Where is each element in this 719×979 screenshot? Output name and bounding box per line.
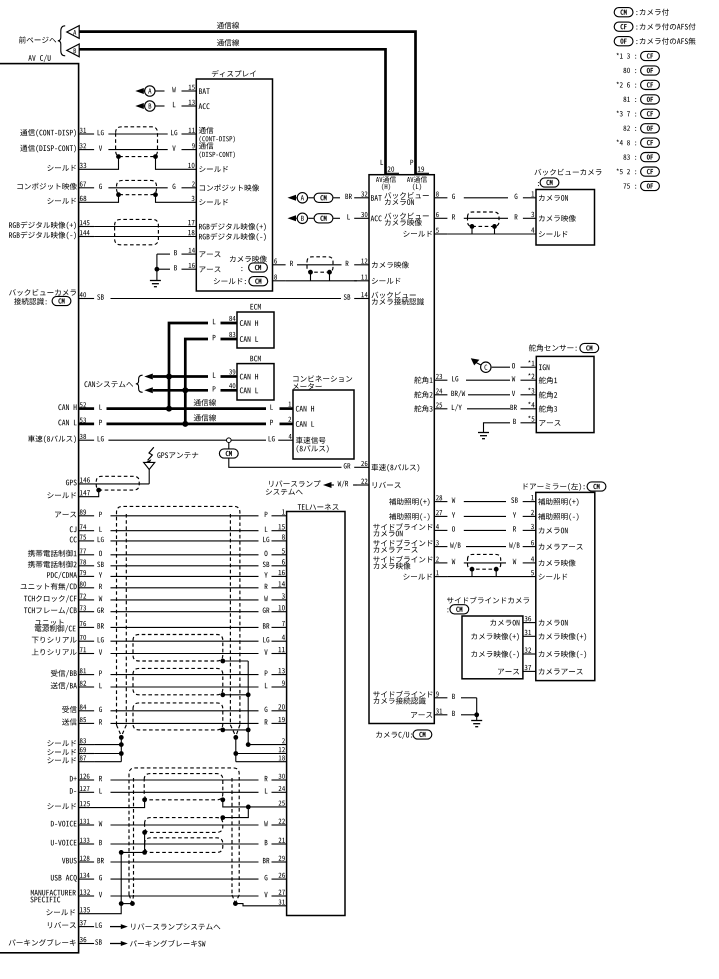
shield drain right to TEL pin 25: [220, 797, 286, 809]
shield around wire 67: [117, 180, 157, 194]
wire CAN L bus 53 to meter pin 2 (thick): [58, 414, 314, 427]
label カメラ映像:CM: [230, 255, 268, 272]
label AV通信(L): [407, 176, 427, 190]
shield drain to pins 68/3: [47, 192, 228, 205]
wire pin 6 R to camera pin 3 カメラ映像: [434, 212, 575, 222]
box ECM: [237, 304, 274, 348]
legend row 75:OF: [623, 181, 659, 190]
wire shield 87 to TEL pin 18: [47, 755, 286, 763]
shield drain pin5/pin4: [403, 224, 567, 237]
legend row *2 6:CF: [616, 80, 659, 89]
label ドアーミラー(左):CM: [524, 482, 606, 491]
wire 133 U-VOICE B to TEL 21: [51, 838, 287, 846]
label リバースランプシステムへ (reverse lamp): [266, 479, 401, 495]
connector AV C/U camera section box: [369, 175, 434, 724]
wire 24 BR/W to 舵角2 *3: [414, 388, 557, 399]
wire 67 G コンポジット映像: [17, 181, 259, 191]
wire 78 SB to TEL pin 6: [28, 559, 287, 568]
legend OF = カメラ付のAFS無: [614, 37, 695, 46]
wire 79 Y to TEL pin 16: [47, 570, 286, 579]
wire ground to アース *5: [478, 416, 561, 439]
wire 77 O to TEL pin 5: [28, 548, 287, 556]
shield around camera video R: [307, 257, 333, 272]
shield around camera R wire: [468, 212, 500, 226]
connector バックビューカメラ box: [536, 190, 595, 246]
wire 通信線 A to pin 19 (thick): [79, 32, 415, 175]
wire 81 P to TEL pin 13: [51, 668, 287, 677]
wire display pin 16 アース B: [157, 263, 221, 272]
wire shield 83 to TEL pin 2: [47, 738, 286, 747]
legend row *5 2:CF: [616, 167, 659, 176]
shield around U-VOICE: [145, 838, 223, 853]
wire 80 R to TEL pin 14: [21, 581, 287, 590]
box BCM: [237, 356, 274, 400]
wire 89 P to TEL pin 1: [55, 509, 286, 517]
wire 82 L to TEL pin 9: [51, 680, 287, 689]
inner shield 下り/上りシリアル: [133, 635, 223, 662]
legend row 82:OF: [623, 124, 659, 133]
wire shield 135: [46, 901, 134, 915]
wire 36 パーキングブレーキ arrow: [9, 937, 206, 947]
connector サイドブラインドカメラ box: [462, 616, 523, 679]
wire 3 W/B to door mirror pin 6 カメラアース: [373, 539, 582, 552]
shield around door mirror W wire: [468, 554, 501, 569]
label CANシステムへ: [84, 375, 142, 392]
wire 74 L to TEL pin 15: [70, 524, 287, 532]
label AV通信(H): [376, 176, 396, 190]
legend row 83:OF: [623, 153, 659, 162]
shield around RGB pair: [115, 219, 159, 244]
wire 車速 38 LG to meter pin 4: [28, 434, 329, 453]
wire 73 GR to TEL pin 10: [24, 605, 287, 614]
wire 146 GPS: [66, 477, 149, 485]
label 舵角センサー:CM: [529, 343, 599, 352]
wire 40 SB バックビューカメラ接続認識: [9, 289, 424, 306]
label 通信線 (second line): [217, 39, 239, 46]
shield drain verticals: [119, 735, 238, 762]
label ディスプレイ: [212, 70, 256, 77]
label バックビューカメラ :CM: [534, 169, 601, 187]
wire 134 USB ACQ G to TEL 26: [51, 873, 287, 882]
label P pin 19: [410, 160, 429, 174]
wire 131 D-VOICE W to TEL 22: [51, 819, 287, 827]
wire CAN H bus 52 to meter pin 1 (thick): [58, 399, 314, 412]
wire 31 LG 通信(CONT-DISP): [20, 127, 235, 143]
box コンビネーションメーター: [293, 375, 354, 459]
wire 31 B アース to ground: [411, 708, 482, 726]
connector ドアーミラー(左) box: [536, 492, 595, 680]
wire C to IGN *1: [471, 358, 550, 372]
wire 128 VBUS BR to TEL 29: [62, 856, 287, 864]
wire 2 W to door mirror pin 4 カメラ映像: [373, 556, 575, 570]
label L pin 20: [381, 160, 399, 174]
legend row 80:OF: [623, 66, 659, 75]
wire 70 LG to TEL pin 4: [32, 635, 287, 643]
legend row *4 8:CF: [616, 138, 659, 147]
wire 28 W to door mirror pin 1 補助照明(+): [389, 495, 579, 506]
shield drain to pin 8/11: [273, 270, 401, 284]
wire 25 L/Y to 舵角3 *4: [414, 402, 557, 413]
wire 37 リバース arrow: [48, 920, 220, 930]
wire 9 B サイドブラインドカメラ接続認識: [373, 691, 476, 715]
ground for display アース: [150, 254, 161, 287]
shield drain door mirror: [403, 567, 567, 580]
drain to W shield top: [220, 807, 248, 820]
wire side blind camera pin 36 カメラON: [490, 616, 567, 626]
shield drain pin 147: [47, 488, 101, 499]
wire 84 G to TEL pin 20: [62, 704, 286, 713]
wire 71 V to TEL pin 11: [32, 647, 287, 655]
inner shield 受信/送信 BB/BA: [133, 668, 223, 694]
triangle connector A: [67, 26, 79, 39]
wire 32 V 通信(DISP-CONT): [20, 142, 235, 158]
shield around D-VOICE: [145, 818, 223, 833]
shield drain to TEL 31: [233, 899, 287, 906]
wire BCM pin 40 CAN L (thick): [144, 383, 258, 393]
wire ACC 30 from connector B/CM: [288, 212, 429, 226]
wire display pin 15 BAT from connector A: [135, 85, 209, 96]
connector 舵角センサー box: [536, 356, 594, 432]
outer shield around TEL bundle: [117, 506, 240, 736]
legend row *3 7:CF: [616, 109, 659, 118]
shield drain to pins 33/10: [47, 154, 228, 172]
shield drains right to TEL pin 2: [220, 659, 250, 747]
antenna drop and triangle: [144, 462, 155, 484]
wire 76 BR to TEL pin 7: [35, 619, 287, 632]
wire pin 8 G to camera pin 1 カメラON: [434, 191, 568, 201]
outer shield USB bundle: [129, 768, 239, 903]
inner shield 受信/送信: [133, 703, 223, 730]
connector TELハーネス box: [287, 504, 345, 916]
wire 75 LG to TEL pin 8: [70, 534, 287, 542]
label カメラC/U:CM: [376, 730, 432, 739]
wire 4 O to door mirror pin 3 カメラON: [373, 523, 568, 536]
shield around wires 31/32: [116, 127, 158, 157]
wire BCM pin 39 CAN H (thick): [144, 369, 258, 379]
wire ECM pin 84 CAN H (thick): [169, 316, 258, 409]
wire 126 D+ R to TEL 30: [70, 774, 287, 782]
wire side blind camera pin 31 カメラ映像(+): [471, 630, 586, 641]
wire 132 MANUFACTURER SPECIFIC V to TEL 27: [30, 889, 286, 902]
branch through CM to pin 26 GR: [219, 442, 419, 471]
brace to prev page: [58, 26, 65, 56]
label GPSアンテナ + antenna symbol: [146, 447, 198, 464]
legend CM = カメラ付: [614, 8, 669, 17]
label シールド:CM: [214, 277, 268, 286]
shield 125 drain left: [47, 797, 147, 809]
wire camera video R pin6 to pin12: [273, 258, 409, 268]
shield around D+/D-: [144, 774, 223, 800]
shield around GPS wire: [96, 476, 139, 490]
legend row *1 3:CF: [616, 51, 659, 60]
label サイドブラインドカメラ:CM: [447, 597, 529, 614]
label 前ページへ: [19, 36, 56, 43]
shield drains W/B boxes: [119, 830, 147, 904]
wire shield 69 to TEL pin 12: [47, 747, 286, 756]
wire 通信線 B to pin 20 (thick): [79, 49, 385, 174]
wire side blind camera pin 37 カメラアース: [498, 665, 583, 675]
wire display pin 13 ACC from connector B: [135, 100, 209, 112]
legend row 81:OF: [623, 95, 659, 104]
wire side blind camera pin 32 カメラ映像(-): [471, 647, 586, 658]
wire display pin 14 アース B: [157, 248, 221, 257]
wire 145 RGBデジタル映像(+): [9, 220, 266, 231]
wire 72 W to TEL pin 3: [24, 593, 287, 602]
wire 23 LG to 舵角1 *2: [414, 373, 557, 384]
wire 127 D- L to TEL 24: [70, 786, 287, 794]
label AV C/U: [28, 55, 50, 62]
wire 144 RGBデジタル映像(-): [9, 230, 266, 241]
triangle connector B: [67, 44, 79, 57]
wire ECM pin 83 CAN L (thick): [185, 332, 258, 424]
wire 27 Y to door mirror pin 2 補助照明(-): [389, 510, 579, 521]
connector AV C/U (main unit box): [0, 64, 79, 953]
node junction 車速 branch: [227, 438, 232, 443]
legend CF = カメラ付のAFS付: [614, 22, 695, 31]
wire 85 R to TEL pin 19: [62, 717, 287, 726]
label 通信線 (top line): [217, 22, 239, 29]
wire BAT 32 from connector A/CM: [288, 191, 429, 205]
connector ディスプレイ (display box): [196, 79, 272, 291]
